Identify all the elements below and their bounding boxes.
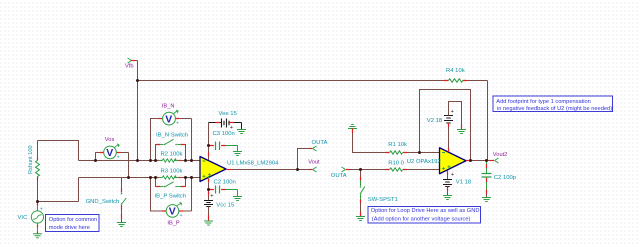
ground for C2 100n bbox=[233, 197, 242, 201]
svg-text:+: + bbox=[230, 125, 233, 131]
switch GND_Switch bbox=[121, 178, 127, 223]
svg-text:Rshunt 100: Rshunt 100 bbox=[28, 145, 34, 174]
capacitor C3 bbox=[209, 142, 238, 152]
svg-text:V: V bbox=[169, 206, 176, 218]
resistor R2 bbox=[156, 159, 180, 162]
wire top feedback horizontal bbox=[138, 81, 488, 161]
switch SW-SPST1 bbox=[360, 171, 365, 216]
svg-text:Add footprint for type 1 compe: Add footprint for type 1 compensation bbox=[496, 99, 591, 105]
svg-text:Vee 15: Vee 15 bbox=[219, 111, 238, 117]
battery V1 18 bbox=[443, 171, 454, 196]
switch IB_P_Switch bbox=[156, 178, 186, 188]
svg-text:SW-SPST1: SW-SPST1 bbox=[368, 197, 398, 203]
wire U1 negative supply rail bbox=[208, 176, 210, 178]
svg-text:+: + bbox=[451, 109, 454, 115]
svg-text:(Add option for another voltag: (Add option for another voltage source) bbox=[372, 217, 471, 223]
ground for Vcc bbox=[204, 221, 213, 225]
svg-text:+: + bbox=[40, 206, 43, 212]
ground for VIC bbox=[33, 234, 42, 238]
wire step from Rshunt to row1 bbox=[38, 141, 79, 161]
svg-text:IB_N: IB_N bbox=[162, 104, 175, 110]
voltmeter IB_N bbox=[151, 110, 192, 160]
svg-text:IB_P: IB_P bbox=[167, 221, 180, 227]
svg-text:C3 100n: C3 100n bbox=[213, 131, 235, 137]
op-amp U2 bbox=[440, 148, 467, 174]
svg-text:U1 LMx58_LM2904: U1 LMx58_LM2904 bbox=[227, 161, 279, 167]
svg-text:mode drive here: mode drive here bbox=[49, 225, 90, 231]
note box: Option for common mode drive here bbox=[46, 215, 100, 232]
ground for SW-SPST1 bbox=[356, 217, 365, 221]
wire U1 output bbox=[227, 169, 298, 171]
svg-text:Vfb: Vfb bbox=[125, 64, 134, 70]
pin Vfb bbox=[128, 58, 138, 63]
svg-text:U2 OPAx192: U2 OPAx192 bbox=[407, 159, 441, 165]
ground for GND_Switch bbox=[117, 223, 126, 227]
svg-text:in negative feedback of U2 (mi: in negative feedback of U2 (might be nee… bbox=[497, 106, 612, 112]
voltmeter IB_P bbox=[151, 178, 192, 220]
pin OUTA (output) bbox=[309, 146, 317, 151]
pin Vout2 bbox=[495, 158, 499, 163]
wire ground to R1 to U2 negative input bbox=[353, 133, 440, 153]
ground for V2 bbox=[457, 130, 466, 134]
svg-text:R4 10k: R4 10k bbox=[446, 68, 465, 74]
wire row1 (U1 negative input row) bbox=[79, 160, 201, 162]
resistor Rshunt vertical bbox=[36, 141, 40, 202]
svg-text:R1 10k: R1 10k bbox=[388, 142, 407, 148]
svg-text:GND_Switch: GND_Switch bbox=[86, 199, 120, 205]
capacitor C2 100p bbox=[482, 161, 492, 198]
resistor R4 bbox=[444, 79, 467, 82]
wire to Vout pin bbox=[298, 169, 310, 171]
svg-text:IB_P Switch: IB_P Switch bbox=[155, 193, 187, 199]
op-amp U1 bbox=[200, 157, 226, 182]
ground for C2 100p bbox=[482, 198, 491, 202]
svg-text:Option for common: Option for common bbox=[49, 217, 97, 223]
svg-text:C2 100p: C2 100p bbox=[494, 175, 517, 181]
switch IB_N_Switch bbox=[156, 139, 186, 160]
svg-text:+: + bbox=[210, 194, 213, 200]
svg-text:+: + bbox=[451, 172, 454, 178]
svg-text:V: V bbox=[165, 113, 172, 125]
svg-text:V1 18: V1 18 bbox=[456, 180, 472, 186]
svg-text:V2 18: V2 18 bbox=[427, 118, 443, 124]
svg-text:R3 100k: R3 100k bbox=[161, 168, 183, 174]
ground for V1 bbox=[443, 196, 452, 200]
note box: Add footprint bbox=[493, 96, 613, 112]
wire U2 feedback loop bbox=[420, 90, 471, 161]
note box: Option for Loop Drive bbox=[368, 207, 481, 224]
junction node dots bbox=[36, 79, 488, 203]
capacitor C2 100n bbox=[209, 186, 238, 197]
wire Vfb rail vertical bbox=[137, 61, 139, 161]
wire row3 bottom to VIC bbox=[38, 201, 79, 203]
voltmeter Vos bbox=[96, 144, 129, 178]
ground for Vee bbox=[237, 130, 246, 134]
svg-text:Vout2: Vout2 bbox=[493, 152, 508, 158]
wire U2 output row bbox=[466, 160, 494, 162]
pin OUTA (input side) bbox=[342, 167, 351, 172]
pin Vout bbox=[309, 167, 317, 172]
resistor R3 bbox=[156, 176, 180, 179]
svg-text:Vcc 15: Vcc 15 bbox=[216, 202, 235, 208]
wire U1 positive supply rail bbox=[208, 123, 210, 161]
battery Vcc 15 bbox=[204, 194, 213, 221]
ground for C3 bbox=[233, 152, 242, 156]
wire to OUTA pin bbox=[298, 149, 310, 170]
svg-text:C2 100n: C2 100n bbox=[214, 180, 236, 186]
svg-text:OUTA: OUTA bbox=[312, 140, 328, 146]
battery Vee 15 bbox=[216, 119, 242, 131]
svg-text:R2 100k: R2 100k bbox=[161, 152, 183, 158]
svg-text:Vout: Vout bbox=[308, 159, 320, 165]
ground above R1 (inverted) bbox=[348, 125, 357, 134]
resistor R10 bbox=[386, 168, 408, 171]
svg-text:+: + bbox=[176, 121, 179, 127]
svg-text:Vos: Vos bbox=[105, 137, 115, 143]
svg-text:V: V bbox=[106, 147, 113, 159]
svg-text:OUTA: OUTA bbox=[331, 173, 347, 179]
svg-text:+: + bbox=[117, 154, 120, 160]
resistor R1 bbox=[386, 151, 408, 154]
wire row2 (U1 positive input row) bbox=[79, 178, 201, 202]
svg-text:R10 0: R10 0 bbox=[388, 160, 404, 166]
svg-text:+: + bbox=[180, 213, 183, 219]
wire OUTA to R10 and U2 bbox=[350, 169, 440, 171]
svg-text:Option for Loop Drive Here as: Option for Loop Drive Here as well as GN… bbox=[371, 208, 480, 214]
svg-text:VIC: VIC bbox=[18, 215, 29, 221]
svg-text:IB_N Switch: IB_N Switch bbox=[156, 133, 188, 139]
source VIC bbox=[31, 203, 43, 234]
battery V2 18 bbox=[444, 102, 462, 153]
